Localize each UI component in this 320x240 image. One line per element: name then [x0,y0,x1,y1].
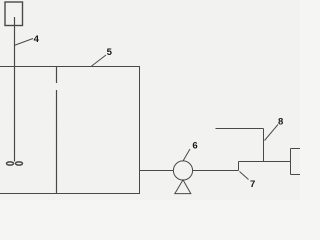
impeller blade right [16,162,23,165]
leader line for label 5 [91,55,106,67]
svg-text:6: 6 [192,141,197,152]
feed line 8 horizontal [216,128,264,130]
tank 5 bottom wall [0,193,140,195]
pipe 7 vertical riser [238,162,240,171]
baffle partition lower solid segment [56,90,58,194]
svg-text:8: 8 [278,116,283,127]
pipe 7 lower horizontal run [193,170,239,172]
leader line for label 4 [14,39,33,46]
leader line for label 8 [265,125,279,141]
stirrer shaft [14,17,16,162]
paper background texture [0,0,300,200]
impeller blade left [7,162,14,165]
pump 6 mount triangle [175,180,191,194]
leader line for label 7 [240,172,249,180]
tank 5 right wall [139,66,141,194]
receiver box at right edge [291,149,303,175]
svg-text:7: 7 [250,179,255,190]
feed line 8 vertical drop [263,129,265,162]
tank 5 top wall [0,66,140,68]
svg-text:4: 4 [34,34,40,45]
motor box item 4 (stirrer motor) [5,2,23,26]
leader line for label 6 [183,149,190,161]
pump 6 circle [173,161,192,180]
baffle partition dashed upper segment [56,67,58,83]
outlet pipe from tank to pump [140,170,174,172]
svg-text:5: 5 [107,47,113,58]
pipe 7 upper horizontal run [239,161,291,163]
